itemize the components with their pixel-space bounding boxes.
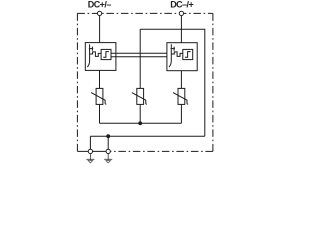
svg-text:DC–/+: DC–/+	[170, 0, 193, 9]
svg-text:DC+/–: DC+/–	[88, 0, 112, 9]
